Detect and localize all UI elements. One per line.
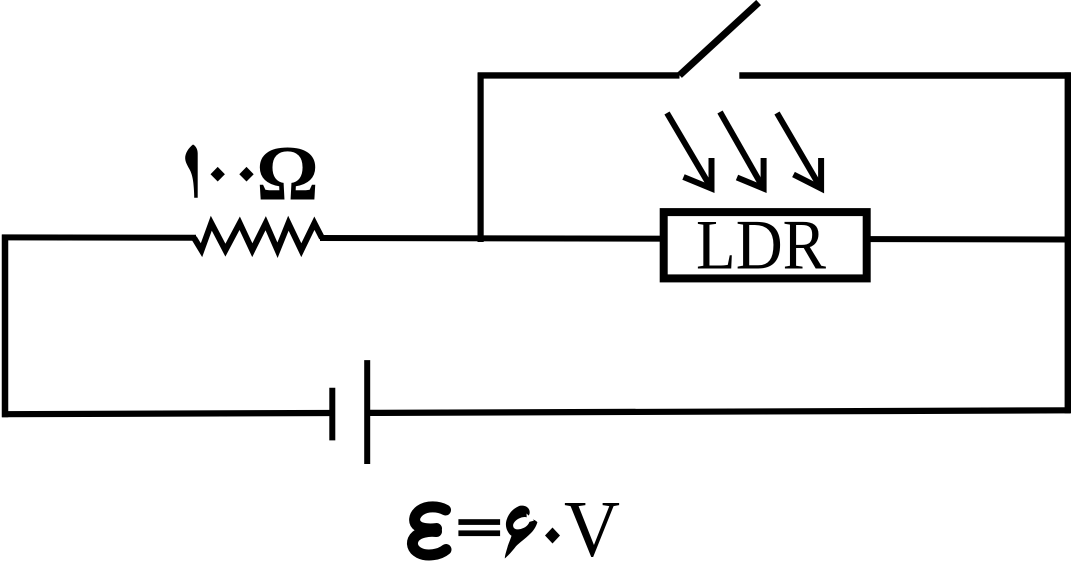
persian zero dot: [545, 528, 560, 544]
label: resistor value 100 ohm (Persian digits): [185, 130, 319, 217]
equals sign bar 1: [458, 519, 500, 525]
epsilon lower bowl: [412, 531, 446, 555]
persian digit 6 body: [505, 506, 538, 559]
persian digit 6 inner hole: [511, 514, 531, 531]
light arrow 1: [667, 113, 712, 189]
equals sign bar 2: [458, 530, 500, 536]
persian digit 6 notch: [527, 514, 535, 523]
battery cell: long plate (positive): [364, 360, 370, 464]
LDR box: [664, 212, 867, 278]
svg-text:LDR: LDR: [696, 206, 827, 284]
wire: right vertical: [1065, 72, 1071, 413]
label: EMF value: [412, 486, 620, 562]
persian digit 1: [185, 145, 198, 198]
svg-text:Ω: Ω: [256, 130, 318, 217]
wire: left vertical: [2, 235, 9, 418]
epsilon (EMF symbol) upper bowl: [415, 507, 446, 529]
switch S (open) arm: [680, 3, 759, 76]
persian zero dot 2: [239, 167, 253, 182]
resistor R1 (100 ohm) zigzag: [194, 223, 322, 250]
wire: switch branch vertical: [478, 73, 484, 242]
svg-text:V: V: [564, 486, 620, 562]
wire: bottom horizontal right segment: [370, 410, 1071, 413]
wire: main horizontal left segment: [2, 234, 196, 240]
persian zero dot 1: [211, 167, 225, 182]
wire: top horizontal right of switch: [739, 72, 1070, 78]
wire: top horizontal left of switch: [478, 72, 680, 78]
battery cell: short plate (negative): [329, 388, 335, 441]
light arrow 2: [720, 112, 764, 189]
wire: main horizontal right segment (passes under LDR box): [320, 238, 1070, 240]
wire: bottom horizontal left segment: [2, 413, 330, 414]
light arrow 3: [777, 113, 821, 189]
